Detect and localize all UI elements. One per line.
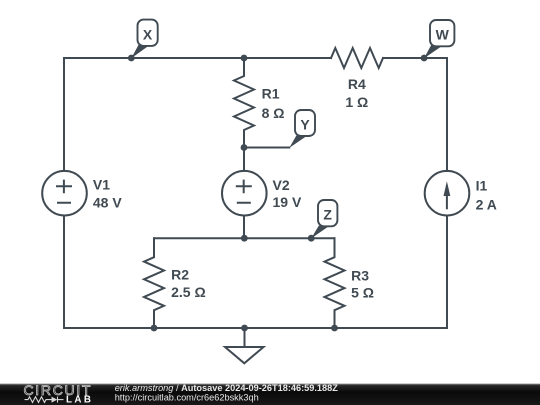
wire left rail upper (63, 58, 65, 171)
label R1 value (262, 85, 285, 121)
svg-text:R4: R4 (348, 76, 366, 92)
svg-text:R2: R2 (171, 267, 189, 283)
svg-text:8 Ω: 8 Ω (262, 105, 285, 121)
svg-text:2 A: 2 A (476, 197, 497, 213)
voltage source V2 (243, 148, 245, 171)
wire right rail lower (446, 216, 448, 329)
svg-text:19 V: 19 V (273, 194, 302, 210)
svg-text:Y: Y (300, 116, 310, 132)
node flag W (424, 20, 454, 58)
wire bottom rail (64, 327, 447, 329)
wire top rail right (383, 57, 447, 59)
svg-text:5 Ω: 5 Ω (351, 284, 374, 300)
svg-text:erik.armstrong / Autosave 2024: erik.armstrong / Autosave 2024-09-26T18:… (115, 383, 339, 393)
footer bar (0, 384, 540, 405)
current source I1 arrowhead (444, 181, 451, 196)
node Z junction (308, 235, 315, 242)
svg-text:R1: R1 (262, 85, 280, 101)
node flag Z (311, 200, 337, 238)
svg-text:I1: I1 (476, 178, 488, 194)
node R2 bottom junction (151, 325, 158, 332)
svg-text:Z: Z (323, 206, 332, 222)
wire left rail lower (63, 216, 65, 329)
current source I1 (425, 171, 470, 216)
footer logo CIRCUIT (24, 382, 93, 398)
svg-text:R3: R3 (351, 267, 369, 283)
wire node Y stub (244, 147, 289, 149)
node R1 top junction (241, 55, 248, 62)
label V2 value (273, 177, 302, 210)
node R1 bottom junction (241, 144, 248, 151)
svg-text:48 V: 48 V (93, 194, 122, 210)
ground (244, 328, 246, 347)
svg-text:LAB: LAB (66, 394, 93, 405)
node ground junction (241, 325, 248, 332)
label R2 value (171, 267, 206, 300)
svg-text:W: W (436, 26, 450, 42)
svg-text:V2: V2 (273, 177, 290, 193)
svg-text:X: X (143, 27, 153, 43)
footer logo resistor-diode symbol (25, 397, 64, 403)
svg-text:2.5 Ω: 2.5 Ω (171, 284, 206, 300)
node X junction (128, 55, 135, 62)
node flag Y (289, 110, 315, 148)
node flag X (131, 20, 157, 59)
svg-text:http://circuitlab.com/cr6e62bs: http://circuitlab.com/cr6e62bskk3qh (115, 393, 259, 403)
label R4 value (345, 76, 368, 110)
node dots (128, 55, 428, 332)
footer credit line (115, 383, 339, 403)
node W junction (421, 55, 428, 62)
node R3 bottom junction (331, 325, 338, 332)
label I1 value (476, 178, 497, 213)
resistor R3 (325, 238, 345, 328)
label R3 value (351, 267, 374, 300)
resistor R2 (144, 238, 164, 328)
resistor R1 (234, 58, 254, 148)
node V2 bottom junction (241, 235, 248, 242)
voltage source V1 (42, 171, 87, 216)
wire top rail (64, 57, 331, 59)
resistor R4 (331, 48, 383, 68)
wire mid rail (154, 237, 335, 239)
svg-text:V1: V1 (93, 177, 110, 193)
footer logo LAB (66, 394, 93, 405)
wire right rail upper (446, 58, 448, 171)
svg-text:1 Ω: 1 Ω (345, 94, 368, 110)
label V1 value (93, 177, 122, 211)
